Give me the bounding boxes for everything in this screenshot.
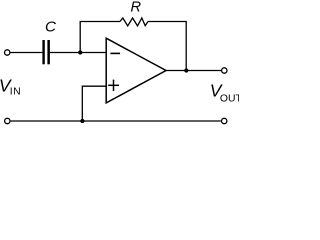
svg-text:R: R (131, 0, 142, 15)
svg-text:IN: IN (10, 87, 21, 98)
svg-text:OUT: OUT (220, 93, 239, 104)
svg-text:C: C (45, 19, 57, 36)
